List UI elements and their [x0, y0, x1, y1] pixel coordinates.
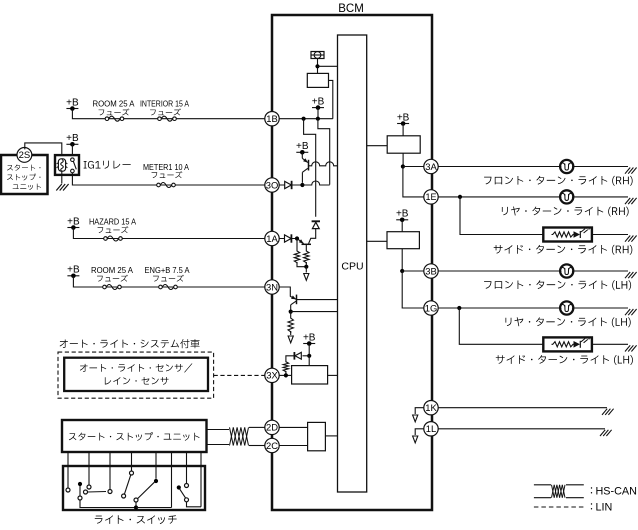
- svg-text:HS-CAN: HS-CAN: [596, 486, 637, 498]
- diode D1 (3O): [285, 181, 292, 189]
- wire B to 3O row: [318, 119, 330, 185]
- wire switch w4: [131, 452, 133, 471]
- wire twist to 2C: [249, 445, 265, 447]
- wire +B to 3N: [73, 276, 264, 287]
- label start-stop unit: [69, 432, 200, 441]
- legend HS-CAN: [591, 486, 637, 498]
- wire switch w6: [171, 452, 173, 508]
- pin 3N: [265, 280, 279, 294]
- wire ssu to 2D: [207, 429, 230, 431]
- pin 1L: [424, 422, 438, 436]
- switch terminal t2: [87, 485, 91, 489]
- pin 1A: [265, 231, 279, 245]
- wire Q3 collector to CPU: [297, 299, 338, 301]
- relay block R1: [307, 73, 328, 87]
- pin 2C: [265, 438, 279, 452]
- fuse ENG+B 7.5 A: [159, 285, 178, 290]
- node C (3O row): [300, 183, 304, 187]
- label fuse jp 2: [150, 108, 181, 115]
- svg-text:ROOM 25 A: ROOM 25 A: [93, 99, 136, 108]
- wire G to box: [308, 356, 310, 366]
- wire 2C interior: [279, 445, 307, 447]
- node J1: [401, 164, 405, 168]
- label stop jp: [7, 174, 40, 181]
- svg-text:ROOM 25 A: ROOM 25 A: [91, 266, 134, 275]
- svg-text:2C: 2C: [266, 440, 278, 451]
- resistor R2: [294, 250, 299, 264]
- label fuse jp 1: [99, 108, 130, 115]
- wire E to arrow: [305, 267, 307, 273]
- wire J1 to 1E: [403, 167, 424, 197]
- label IG1 relay: [84, 161, 131, 169]
- wire +B to G: [308, 344, 310, 356]
- label sensor line1: [80, 363, 193, 372]
- wire R2 to node E: [297, 262, 306, 267]
- label auto-light system: [60, 339, 200, 348]
- resistor R3: [304, 250, 309, 264]
- svg-text:INTERIOR 15 A: INTERIOR 15 A: [140, 99, 190, 108]
- node I: [315, 64, 319, 68]
- wire J2 to 1G: [402, 271, 424, 308]
- wire 3O row interior: [279, 184, 302, 186]
- power +B (T1): [296, 141, 309, 155]
- pin 3O: [265, 178, 279, 192]
- lamp rear turn RH: [560, 190, 573, 203]
- label fuse jp 4: [98, 226, 129, 233]
- side marker LH resistor: [552, 342, 575, 347]
- relay IG1 coil: [57, 159, 68, 171]
- wire switch w1: [67, 452, 69, 488]
- wire A2 to CPU: [325, 435, 337, 437]
- relay IG1 contact: [71, 158, 77, 173]
- node K2: [457, 306, 461, 310]
- ground (3B row): [625, 272, 637, 278]
- arrow out (E): [304, 274, 309, 281]
- power +B (interior 1B): [312, 96, 325, 109]
- label front turn RH: [484, 176, 633, 186]
- wire 3N interior: [279, 287, 290, 297]
- BCM unit box: [272, 15, 432, 510]
- wire R3 to node E: [305, 262, 307, 267]
- indicator lamp (cluster): [311, 52, 324, 59]
- label fuse jp 6: [153, 275, 184, 282]
- node D (1A row): [295, 236, 299, 240]
- svg-text:1L: 1L: [426, 423, 436, 434]
- side marker LH led: [574, 337, 590, 348]
- wire A down to diode: [304, 119, 316, 217]
- node E: [304, 265, 308, 269]
- pin 3A: [424, 159, 438, 173]
- light switch box: [63, 466, 205, 510]
- svg-text:3A: 3A: [425, 161, 437, 172]
- transistor Q2: [298, 239, 311, 244]
- transistor Q1: [302, 152, 308, 183]
- wire 1L row: [438, 428, 605, 430]
- wire switch w7: [186, 452, 188, 484]
- power +B (B1): [397, 112, 410, 125]
- svg-text:1B: 1B: [266, 113, 277, 124]
- wire 1B row interior: [279, 118, 333, 120]
- fuse ROOM 25 A (row 3N): [103, 285, 122, 290]
- fuse METER1 10 A: [157, 183, 176, 188]
- node A (1B row): [302, 117, 306, 121]
- junction (switch bus): [134, 505, 172, 509]
- ground (side LH): [625, 345, 637, 351]
- ground (IG1 relay): [56, 184, 68, 191]
- side marker RH led: [574, 227, 590, 238]
- switch contact s1: [78, 482, 135, 508]
- svg-text:3X: 3X: [266, 370, 278, 381]
- label ROOM 25 A (2): [91, 266, 134, 275]
- svg-text:3O: 3O: [266, 179, 279, 190]
- wire D4 to resistor: [286, 356, 294, 361]
- wire CPU to B2: [367, 240, 387, 242]
- power +B (3X): [303, 332, 316, 346]
- label rear turn RH: [502, 206, 629, 216]
- pin 1B: [265, 112, 279, 126]
- switch terminal t3: [108, 490, 112, 494]
- svg-text:METER1 10 A: METER1 10 A: [143, 163, 190, 172]
- svg-text:HAZARD 15 A: HAZARD 15 A: [89, 217, 137, 226]
- label ROOM 25 A: [93, 99, 136, 108]
- svg-text:CPU: CPU: [341, 261, 363, 273]
- CPU block U1: [338, 35, 367, 492]
- svg-text:2D: 2D: [266, 422, 278, 433]
- wire D to resistor: [296, 239, 298, 251]
- node J2: [400, 269, 404, 273]
- node G: [307, 354, 311, 358]
- svg-text:1E: 1E: [425, 192, 436, 202]
- wire +B int to row: [317, 108, 319, 119]
- twisted pair (ssu-BCM): [230, 427, 249, 445]
- wire +B to relay: [71, 144, 73, 155]
- label ENG+B 7.5 A: [145, 266, 191, 275]
- node B (1B row): [316, 117, 320, 121]
- label front turn LH: [484, 280, 631, 290]
- legend twisted pair: [534, 485, 584, 498]
- label fuse jp 5: [97, 275, 128, 282]
- driver block A1 (3X): [292, 366, 328, 384]
- wire F to resistor: [290, 312, 292, 317]
- pin 1G: [424, 301, 438, 315]
- wire switch w8: [200, 452, 202, 507]
- switch terminal t1: [66, 488, 70, 492]
- wire +B to B1: [402, 124, 404, 136]
- wire diode to T2: [309, 229, 316, 244]
- ground (3A row): [625, 168, 637, 174]
- wire I to CPU: [318, 65, 338, 67]
- wire R1 to 1B row: [329, 80, 333, 118]
- svg-text:2S: 2S: [19, 150, 31, 161]
- power +B (IG1 relay): [66, 133, 79, 147]
- wire 2S to relay: [25, 143, 62, 155]
- start-stop unit box: [1, 155, 48, 194]
- diode D4 (3X): [294, 352, 309, 360]
- lamp front turn LH: [560, 264, 573, 277]
- lamp front turn RH: [560, 160, 573, 173]
- svg-text:LIN: LIN: [596, 502, 613, 514]
- driver block B1: [387, 136, 420, 153]
- side marker RH box: [543, 228, 592, 242]
- svg-text:BCM: BCM: [338, 3, 364, 15]
- pin 1K: [424, 401, 438, 415]
- wire switch w3: [109, 452, 111, 490]
- legend LIN dashed: [534, 506, 584, 508]
- wire +B to 1A: [73, 228, 264, 239]
- power +B (row 1A): [67, 216, 80, 230]
- power +B (row 1B): [66, 97, 79, 110]
- power +B (B2): [396, 209, 409, 223]
- wire 1K row: [438, 407, 607, 409]
- fuse INTERIOR 15 A: [158, 116, 177, 121]
- switch lever s3: [122, 475, 131, 498]
- wire R4 to arrow: [290, 331, 292, 335]
- wire indicator down: [317, 59, 319, 74]
- wire J1 to 3A: [403, 166, 424, 168]
- resistor R5: [283, 361, 288, 372]
- wire +B to 1B: [72, 109, 264, 119]
- wire 3A row: [438, 166, 628, 168]
- label side turn LH: [496, 355, 633, 365]
- wire R5 to H: [285, 371, 287, 375]
- svg-text:1G: 1G: [425, 302, 438, 313]
- driver block B2: [387, 232, 419, 249]
- wire 1G row: [438, 307, 628, 309]
- node K1: [458, 195, 462, 199]
- interface block A2: [308, 422, 326, 450]
- wire 1A interior: [279, 238, 297, 240]
- diode D2 (vertical): [312, 221, 320, 228]
- wire ssu to 2C: [207, 444, 230, 446]
- wire A1 to CPU: [328, 374, 338, 376]
- label side turn RH: [494, 245, 633, 255]
- lamp rear turn LH: [560, 301, 573, 314]
- wire sensor to 3X (dashed): [214, 374, 265, 376]
- wire 2D interior: [279, 426, 307, 428]
- wire 3B row: [438, 270, 628, 272]
- wire C hop to B-branch: [302, 181, 329, 185]
- wire side RH branch: [460, 197, 543, 235]
- diode D3 (1A): [285, 234, 292, 242]
- label BCM: [338, 3, 364, 15]
- arrow out (1L): [413, 436, 418, 443]
- transistor Q3: [290, 295, 296, 312]
- svg-text:1A: 1A: [266, 233, 278, 244]
- wire side LH to ground: [592, 343, 628, 345]
- wire switch w5: [155, 452, 157, 479]
- fuse ROOM 25 A (row 1B): [105, 116, 124, 121]
- relay IG1 box: [55, 155, 79, 175]
- switch pole p5: [154, 479, 158, 483]
- fuse HAZARD 15 A: [104, 236, 123, 241]
- pin 3X: [265, 368, 279, 382]
- wire switch w2: [88, 452, 90, 485]
- ground (1K row): [602, 409, 614, 415]
- pin 1E: [424, 190, 438, 204]
- switch terminal t4: [130, 471, 134, 475]
- svg-text:ENG+B 7.5 A: ENG+B 7.5 A: [145, 266, 191, 275]
- switch terminal t7: [185, 484, 189, 488]
- label unit jp: [13, 184, 41, 190]
- switch lever s5: [177, 485, 201, 506]
- svg-text:3N: 3N: [266, 281, 278, 292]
- side marker LH box: [543, 337, 592, 351]
- pin 2D: [265, 420, 279, 434]
- wire B2 down: [401, 249, 403, 271]
- label fuse jp 3: [152, 171, 183, 178]
- side marker RH resistor: [552, 232, 575, 237]
- label HAZARD 15 A: [89, 217, 137, 226]
- start-stop unit box 2: [62, 420, 207, 452]
- ground (1L row): [600, 430, 612, 436]
- wire Q1 base to CPU (hops): [309, 162, 338, 166]
- switch contact s2: [84, 490, 107, 494]
- label rear turn LH: [505, 317, 630, 327]
- wire F to CPU: [291, 311, 338, 313]
- legend LIN: [591, 502, 612, 514]
- wire J2 to 3B: [402, 270, 424, 272]
- wire CPU to B1: [367, 145, 388, 147]
- pin 2S: [17, 148, 32, 163]
- label INTERIOR 15 A: [140, 99, 190, 108]
- label sensor line2: [105, 377, 169, 385]
- auto-light dashed box: [58, 352, 214, 398]
- label METER1 10 A: [143, 163, 190, 172]
- pin 3B: [424, 264, 438, 278]
- switch lever s4: [134, 482, 154, 507]
- svg-text:1K: 1K: [425, 402, 437, 413]
- wire relay to 3O row: [72, 173, 264, 185]
- resistor R4: [288, 317, 293, 333]
- power +B (row 3N): [67, 265, 80, 279]
- wire B1 down: [402, 153, 404, 166]
- wire 1K stub: [415, 408, 424, 414]
- wire twist to 2D: [249, 426, 265, 428]
- wire 3X interior: [279, 374, 291, 376]
- node F: [289, 310, 293, 314]
- ground (1E row): [625, 198, 637, 204]
- node H: [284, 373, 288, 377]
- auto-light sensor box: [64, 358, 208, 391]
- wire side RH to ground: [592, 234, 628, 236]
- ground (side RH): [625, 236, 637, 242]
- label light switch: [95, 515, 177, 524]
- wire side LH branch: [459, 308, 543, 344]
- wire coil to ground: [61, 171, 63, 183]
- svg-text:3B: 3B: [425, 265, 436, 276]
- label start jp: [7, 164, 40, 170]
- wire +B to B2: [401, 220, 403, 232]
- wire 1L stub: [415, 429, 424, 435]
- wire 1E row: [438, 196, 628, 198]
- arrow out (F): [288, 336, 293, 343]
- wire Q2 emitter: [305, 244, 307, 250]
- arrow out (1K): [413, 415, 418, 422]
- ground (1G row): [625, 309, 637, 315]
